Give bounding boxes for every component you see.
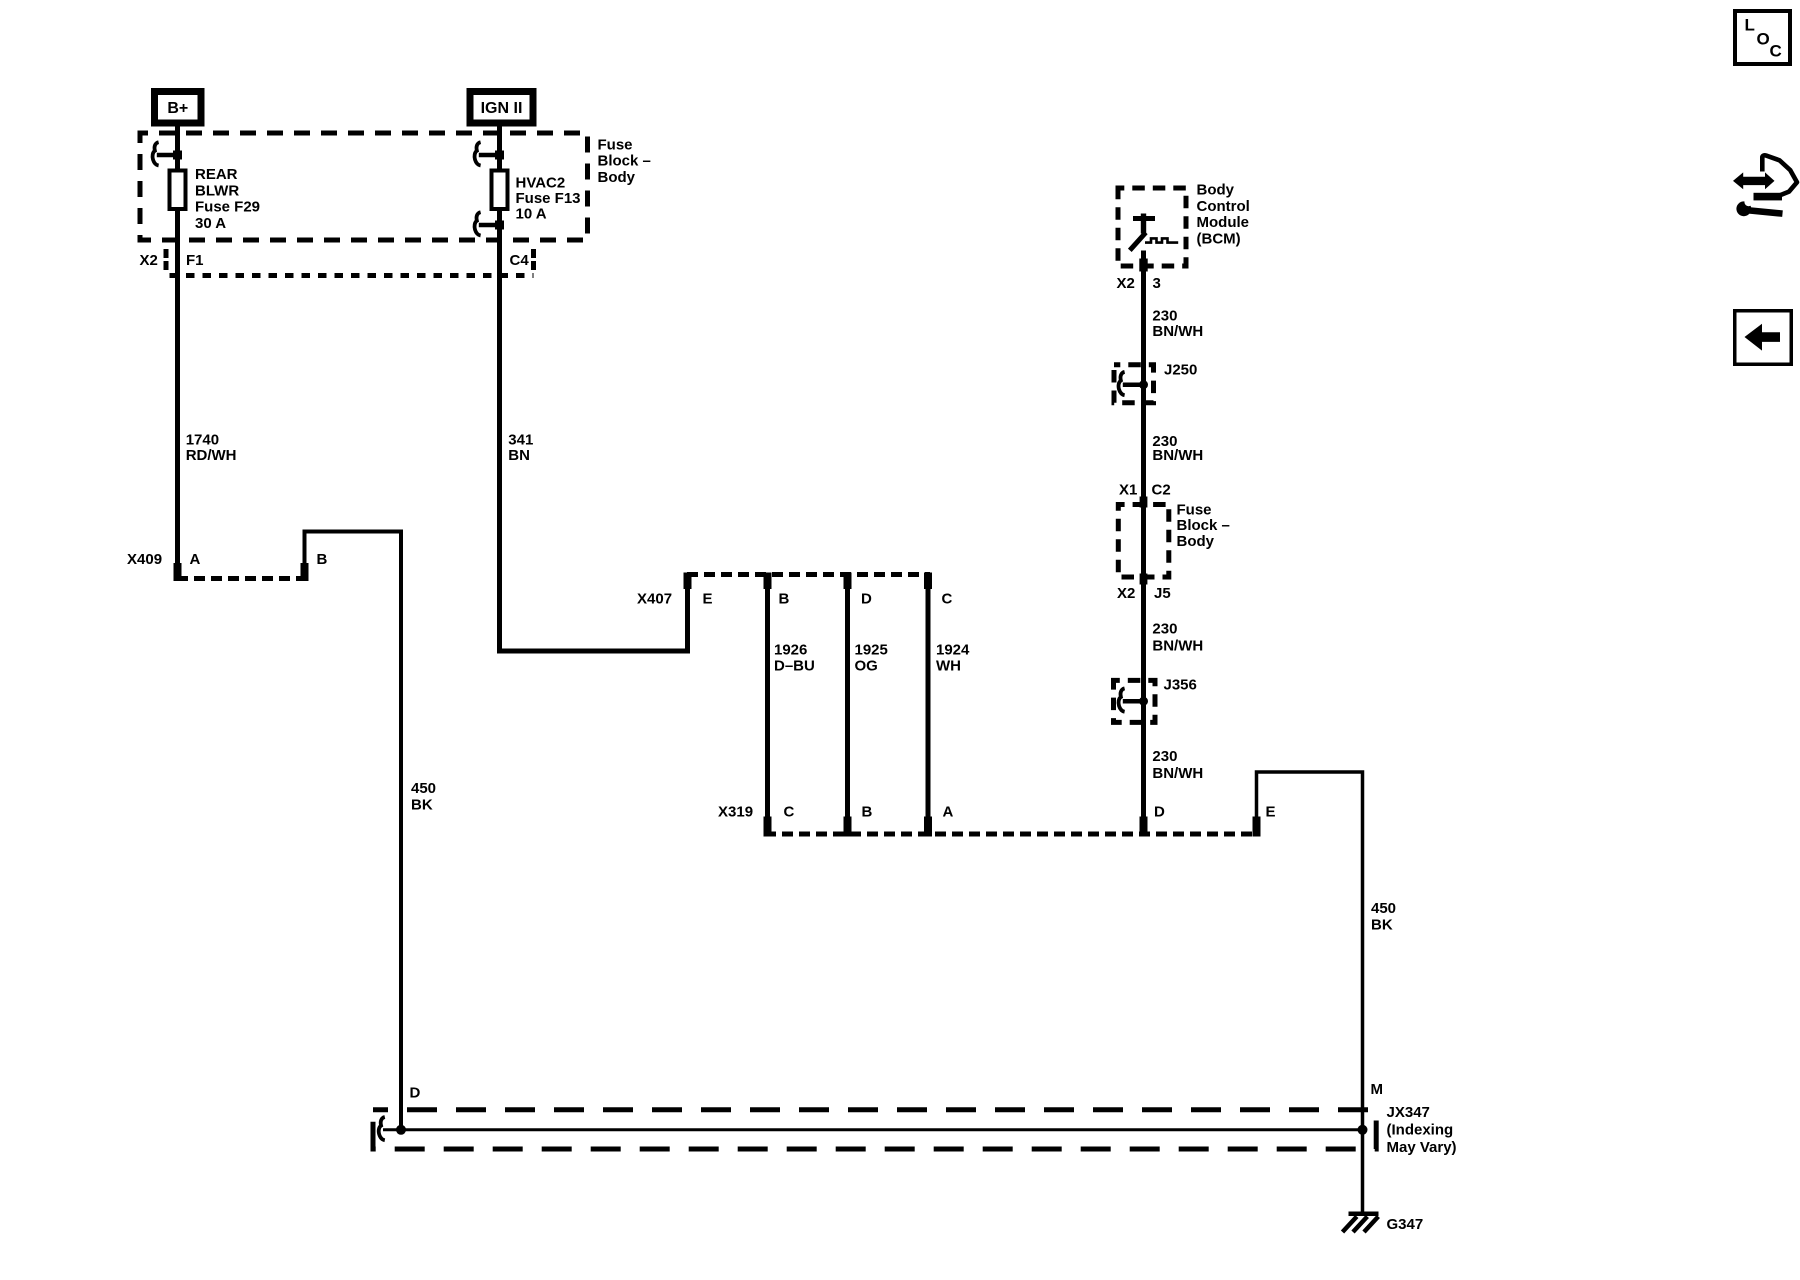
svg-text:Fuse: Fuse — [1177, 502, 1212, 519]
svg-text:Body: Body — [1177, 533, 1215, 550]
svg-text:1925: 1925 — [855, 642, 888, 659]
svg-text:Module: Module — [1197, 214, 1250, 231]
svg-text:1924: 1924 — [936, 642, 970, 659]
svg-text:B: B — [317, 551, 328, 568]
svg-text:Fuse F29: Fuse F29 — [195, 199, 260, 216]
svg-text:L: L — [1745, 16, 1755, 35]
svg-text:BK: BK — [1371, 916, 1393, 933]
svg-text:BN/WH: BN/WH — [1152, 765, 1203, 782]
svg-text:WH: WH — [936, 657, 961, 674]
svg-text:450: 450 — [1371, 900, 1396, 917]
svg-text:O: O — [1757, 29, 1770, 48]
svg-text:D–BU: D–BU — [774, 657, 815, 674]
svg-text:BLWR: BLWR — [195, 182, 239, 199]
svg-text:X2: X2 — [1117, 585, 1135, 602]
svg-text:230: 230 — [1152, 308, 1177, 325]
svg-text:IGN II: IGN II — [481, 100, 523, 117]
svg-text:J356: J356 — [1164, 676, 1197, 693]
svg-text:X1: X1 — [1119, 481, 1137, 498]
svg-text:E: E — [1266, 803, 1276, 820]
svg-text:A: A — [943, 803, 954, 820]
svg-text:F1: F1 — [186, 252, 204, 269]
svg-text:E: E — [703, 590, 713, 607]
svg-text:BN/WH: BN/WH — [1152, 447, 1203, 464]
svg-text:RD/WH: RD/WH — [186, 447, 237, 464]
svg-text:OG: OG — [855, 657, 878, 674]
svg-text:May Vary): May Vary) — [1387, 1139, 1457, 1156]
svg-text:BK: BK — [411, 796, 433, 813]
svg-text:230: 230 — [1152, 748, 1177, 765]
svg-text:230: 230 — [1152, 620, 1177, 637]
svg-text:C: C — [1770, 42, 1782, 61]
svg-text:HVAC2: HVAC2 — [516, 174, 566, 191]
svg-text:X407: X407 — [637, 590, 672, 607]
svg-text:D: D — [1154, 803, 1165, 820]
svg-text:J5: J5 — [1154, 585, 1171, 602]
svg-text:BN/WH: BN/WH — [1152, 638, 1203, 655]
svg-text:REAR: REAR — [195, 166, 238, 183]
svg-text:Block –: Block – — [1177, 517, 1230, 534]
svg-text:BN/WH: BN/WH — [1152, 323, 1203, 340]
svg-text:C2: C2 — [1152, 481, 1171, 498]
svg-text:(BCM): (BCM) — [1197, 230, 1241, 247]
svg-text:BN: BN — [508, 447, 530, 464]
svg-text:Fuse F13: Fuse F13 — [516, 190, 581, 207]
svg-text:D: D — [410, 1085, 421, 1102]
svg-text:X319: X319 — [718, 803, 753, 820]
svg-text:3: 3 — [1153, 275, 1161, 292]
svg-text:G347: G347 — [1387, 1216, 1424, 1233]
svg-text:M: M — [1371, 1081, 1384, 1098]
svg-text:JX347: JX347 — [1387, 1104, 1430, 1121]
svg-text:Block –: Block – — [598, 153, 651, 170]
svg-text:C: C — [784, 803, 795, 820]
svg-text:Fuse: Fuse — [598, 136, 633, 153]
svg-text:Body: Body — [598, 169, 636, 186]
svg-text:30 A: 30 A — [195, 215, 226, 232]
svg-text:C: C — [942, 590, 953, 607]
svg-text:450: 450 — [411, 780, 436, 797]
svg-text:D: D — [861, 590, 872, 607]
svg-text:B: B — [779, 590, 790, 607]
svg-text:J250: J250 — [1164, 361, 1197, 378]
svg-text:1926: 1926 — [774, 642, 807, 659]
svg-text:B+: B+ — [167, 100, 188, 117]
svg-text:B: B — [862, 803, 873, 820]
svg-text:(Indexing: (Indexing — [1387, 1121, 1454, 1138]
svg-text:X2: X2 — [1117, 275, 1135, 292]
svg-text:X409: X409 — [127, 551, 162, 568]
svg-text:10 A: 10 A — [516, 205, 547, 222]
svg-text:X2: X2 — [140, 252, 158, 269]
svg-text:Body: Body — [1197, 182, 1235, 199]
svg-text:Control: Control — [1197, 198, 1250, 215]
svg-text:A: A — [190, 551, 201, 568]
svg-text:C4: C4 — [510, 252, 530, 269]
